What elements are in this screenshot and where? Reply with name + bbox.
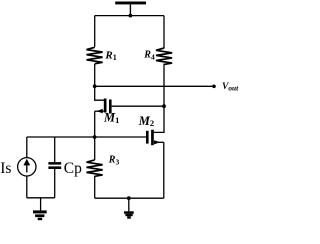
wire R3 bottom: [94, 176, 96, 198]
M1 source wire: [95, 110, 104, 112]
wire bottom rail: [95, 197, 164, 199]
M2 channel bar: [151, 130, 154, 146]
current source Is: [18, 137, 36, 198]
svg-text:Is: Is: [0, 160, 11, 177]
svg-text:R4: R4: [143, 49, 155, 61]
svg-text:M2: M2: [138, 114, 154, 128]
Cp bottom wire: [54, 169, 56, 198]
Is top wire: [26, 137, 28, 157]
wire Vout: [95, 85, 214, 87]
node M1 gate junction dot: [162, 104, 166, 108]
Cp plate top: [48, 162, 61, 165]
M1 channel bar: [104, 99, 107, 113]
M2 source arrow: [154, 140, 160, 144]
wire input node to M2 gate: [27, 136, 146, 138]
svg-text:Vout: Vout: [222, 82, 239, 93]
svg-text:R3: R3: [108, 155, 120, 167]
wire right rail upper: [163, 16, 165, 49]
wire ground stub left: [40, 198, 42, 211]
Is circle: [18, 158, 36, 176]
node Vout junction dot: [93, 84, 97, 88]
Cp plate bottom: [48, 166, 61, 169]
Is arrow shaft: [26, 163, 28, 173]
transistor M1: [95, 99, 112, 114]
M2 source wire: [154, 141, 164, 143]
wire left rail upper: [94, 16, 96, 47]
resistor R1: [87, 47, 103, 63]
capacitor Cp: [48, 137, 61, 198]
node input junction dot: [93, 135, 97, 139]
node VDD junction dot: [129, 14, 133, 18]
resistor R3: [87, 160, 103, 176]
wire right rail R4 to M2 drain: [154, 64, 164, 133]
ground mid: [124, 211, 134, 218]
M1 source arrow: [96, 109, 103, 113]
wire R1 bottom to M1 drain: [95, 64, 104, 100]
M2 gate bar: [146, 131, 149, 144]
Is bottom wire: [26, 176, 28, 198]
svg-text:M1: M1: [103, 111, 119, 125]
wire M2 source down: [163, 142, 165, 198]
wire VDD stub: [129, 4, 131, 15]
ground left: [33, 210, 47, 220]
wire top rail: [95, 15, 164, 17]
wire Is Cp bottom rail: [27, 197, 55, 199]
Cp top wire: [54, 137, 56, 162]
M1 gate bar: [109, 100, 112, 114]
wire M1 gate: [112, 105, 164, 107]
wire M1 source down rail: [94, 111, 96, 160]
VDD supply bar: [115, 2, 146, 5]
node Vout terminal dot: [212, 85, 216, 89]
Is arrow head: [23, 159, 30, 166]
svg-text:Cp: Cp: [64, 160, 82, 177]
resistor R4: [156, 48, 172, 64]
transistor M2: [146, 130, 164, 146]
node ground junction dot: [127, 196, 131, 200]
svg-text:R1: R1: [104, 49, 116, 62]
wire ground stub mid: [128, 198, 130, 211]
